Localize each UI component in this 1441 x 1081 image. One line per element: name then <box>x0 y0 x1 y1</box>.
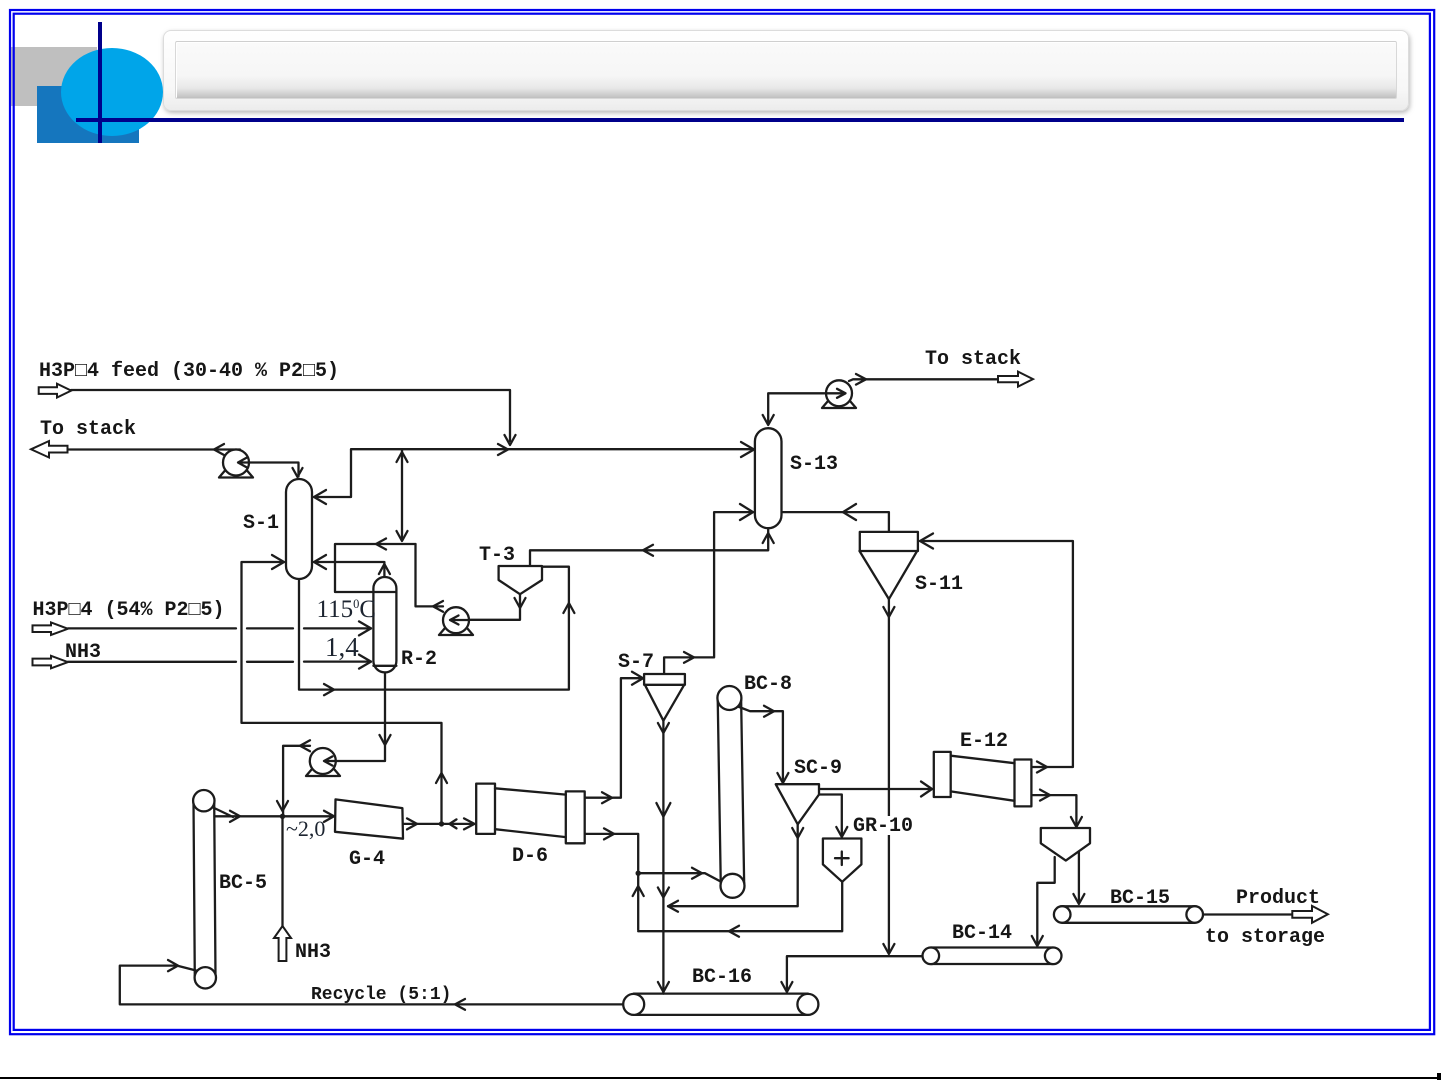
logo: medium blue square <box>37 86 139 143</box>
elevator BC-8 belt <box>718 698 745 886</box>
arrow down on riser x=402 <box>397 531 408 541</box>
arrow up toward T-3 on riser <box>563 603 574 613</box>
arrow right on D-6 gas outlet <box>602 792 612 803</box>
svg-text:BC-16: BC-16 <box>692 966 752 989</box>
pump P4 <box>826 380 852 406</box>
svg-text:H3P□4 (54% P2□5): H3P□4 (54% P2□5) <box>33 599 225 622</box>
svg-text:NH3: NH3 <box>295 941 331 964</box>
svg-text:BC-5: BC-5 <box>219 872 267 895</box>
wire BC-8 top discharge to SC-9 <box>738 707 783 783</box>
pump P2 internal arrow <box>450 616 470 625</box>
arrow left into S-1 upper right <box>314 490 326 504</box>
arrow right on header before feed drop <box>498 444 508 455</box>
svg-text:S-11: S-11 <box>915 573 963 596</box>
arrow up on R-2 vapor line <box>379 564 390 574</box>
separator S-11 cone <box>860 551 918 599</box>
wire S-7 gas riser to S-13 <box>664 512 753 674</box>
elevator BC-8 top pulley <box>717 686 741 710</box>
arrow left on to-stack header <box>214 444 224 455</box>
pump P1 <box>223 450 249 476</box>
junction dot NH3 tee <box>280 814 285 819</box>
pump P2 <box>443 607 469 633</box>
arrow right on E-12 gas outlet <box>1037 762 1047 773</box>
svg-text:T-3: T-3 <box>479 544 515 567</box>
arrow down from SC-9 cone <box>792 828 803 838</box>
wire loop corner to pump P2 <box>416 544 444 606</box>
wire G-4 outlet to D-6 <box>403 823 474 825</box>
wire BC-14 to BC-16 <box>787 956 923 989</box>
wire NH3 feed line <box>68 660 371 663</box>
wire R-2 bottoms to pump P3 <box>326 672 385 761</box>
wire BC-15 to product arrow <box>1203 913 1292 915</box>
dryer D-6 left end <box>476 784 495 834</box>
svg-text:R-2: R-2 <box>401 648 437 671</box>
wire S-13 bottoms to T-3 <box>530 528 768 566</box>
arrow left on SC-9 fines return <box>668 901 678 912</box>
arrow right into S-13 left inlet <box>740 504 753 520</box>
arrow up on riser to S-1 <box>436 773 447 783</box>
stream arrow to-stack right <box>998 372 1033 387</box>
bottom right tick <box>1437 1073 1441 1080</box>
arrow down into S-13 top <box>763 415 774 425</box>
reactor R-2 joint line <box>373 592 396 666</box>
wire S-1 bottoms to T-3 top right <box>299 567 569 690</box>
svg-text:1150C: 1150C <box>317 596 377 623</box>
svg-text:Product: Product <box>1236 887 1320 910</box>
arrow right into S-7 inlet <box>632 672 643 685</box>
arrow right into D-6 <box>450 818 475 829</box>
crusher GR-10 <box>823 839 862 882</box>
wire pump P1 outlet to S-1 top <box>239 463 299 477</box>
arrow down onto BC-14 <box>1032 936 1043 946</box>
title placeholder bar (3D bevel) <box>163 30 1409 111</box>
wire S-7 downcomer <box>662 721 664 994</box>
conveyor BC-14 left pulley <box>923 948 940 965</box>
arrow down below S-7 cone <box>658 723 669 733</box>
column S-1 <box>286 479 312 579</box>
stream arrow product <box>1292 906 1328 923</box>
conveyor BC-15 left pulley <box>1054 906 1071 923</box>
arrow right after G-4 <box>407 818 417 829</box>
wire SC-9 fines return <box>668 824 798 906</box>
svg-text:S-1: S-1 <box>243 512 279 535</box>
dryer D-6 shell <box>495 788 566 837</box>
svg-text:1,4: 1,4 <box>325 632 359 662</box>
wire vapor riser x=402 <box>401 450 403 541</box>
screen SC-9 <box>776 784 819 824</box>
cooler E-12 shell <box>951 756 1015 801</box>
stream arrow NH3 feed <box>33 656 68 669</box>
pump P4 base <box>822 401 856 408</box>
arrow up on riser x=402 <box>397 452 408 462</box>
wire S-13 gas to S-11 <box>782 512 889 532</box>
arrow down from S-11 downcomer <box>883 944 894 954</box>
svg-text:D-6: D-6 <box>512 845 548 868</box>
wire junction to BC-8 bottom <box>638 873 722 882</box>
svg-text:To stack: To stack <box>40 418 136 441</box>
arrow down on NH3 drop <box>277 801 288 811</box>
svg-text:To stack: To stack <box>925 348 1021 371</box>
wire G-4 junction riser to S-1 left inlet <box>242 562 442 824</box>
arrow down on R-2 bottoms <box>380 735 391 745</box>
conveyor BC-16 right pulley <box>797 994 818 1015</box>
wire H3PO4 54% feed line <box>68 627 371 629</box>
conveyor BC-5 bottom pulley <box>195 967 216 988</box>
wire SC-9 coarse to GR-10 <box>819 795 842 836</box>
arrow right into R-2 lower feed <box>359 655 371 669</box>
logo: gray square <box>11 47 97 106</box>
svg-text:E-12: E-12 <box>960 730 1008 753</box>
conveyor BC-5 top pulley <box>193 790 214 811</box>
arrow down onto BC-16 right <box>781 982 792 992</box>
arrow up on GR-10 return riser <box>633 886 644 896</box>
svg-text:BC-15: BC-15 <box>1110 887 1170 910</box>
conveyor BC-5 belt <box>194 801 216 978</box>
junction dot G-4 outlet tee <box>439 821 444 826</box>
arrow left pump P2 outlet <box>433 601 443 612</box>
arrow up into S-13 bottom <box>763 533 774 543</box>
crusher GR-10 plus symbol <box>835 852 849 866</box>
pump P3 <box>310 748 336 774</box>
bottom black rule <box>0 1077 1441 1080</box>
label mask for GR-10 <box>851 816 915 835</box>
arrow down onto BC-16 <box>658 982 669 992</box>
logo: navy vertical crosshair line <box>98 22 102 143</box>
wire S-11 downcomer <box>888 599 890 951</box>
svg-text:H3P□4 feed (30-40 % P2□5): H3P□4 feed (30-40 % P2□5) <box>39 360 339 383</box>
arrow down big on S-7 downcomer <box>656 803 670 817</box>
stream arrow NH3 up <box>274 926 291 961</box>
wire BC-5 discharge into G-4 <box>210 806 334 817</box>
column S-13 <box>755 428 782 528</box>
svg-text:Recycle (5:1): Recycle (5:1) <box>311 985 451 1005</box>
arrow left into S-1 right <box>314 555 326 569</box>
wire H3PO4 feed top line <box>71 390 510 441</box>
pump P3 base <box>306 769 340 776</box>
svg-text:SC-9: SC-9 <box>794 757 842 780</box>
arrow down into hopper <box>1071 817 1082 827</box>
arrow left on recycle line <box>455 999 465 1010</box>
conveyor BC-15 shell <box>1062 906 1195 923</box>
wire GR-10 discharge return <box>638 882 842 931</box>
arrow right into R-2 upper feed <box>359 621 371 635</box>
pump P4 internal arrow <box>826 389 846 398</box>
arrow right into S-13 upper inlet <box>741 442 754 457</box>
navy horizontal rule under title <box>76 118 1404 122</box>
wire pump P4 suction from S-13 top <box>768 393 843 423</box>
logo: azure ellipse <box>61 48 163 136</box>
granulator G-4 <box>335 799 403 838</box>
wire E-12 product to hopper <box>1031 795 1076 825</box>
arrow left pump P3 outlet <box>300 740 310 751</box>
arrow down mid S-7 downcomer <box>658 888 669 898</box>
stream arrow H3PO4 54% <box>33 623 68 636</box>
arrow right into G-4 <box>324 811 334 822</box>
arrow down feed drop <box>505 435 516 445</box>
svg-text:BC-14: BC-14 <box>952 922 1012 945</box>
cooler E-12 left end <box>934 752 951 797</box>
arrow right on D-6 solids outlet <box>604 828 614 839</box>
arrow right after BC-5 top <box>230 811 240 822</box>
pump P1 internal arrow <box>238 458 250 467</box>
arrow left on S-13 bottoms line <box>643 545 653 556</box>
separator S-11 lid <box>860 532 918 551</box>
arrow right into S-1 left <box>272 555 284 569</box>
conveyor BC-16 left pulley <box>623 994 644 1015</box>
wire S-1 upper right inlet branch <box>314 450 351 498</box>
arrow down into S-1 top <box>293 468 303 477</box>
conveyor BC-15 right pulley <box>1186 906 1203 923</box>
pump P2 base <box>439 628 473 635</box>
stream arrow H3PO4 feed <box>39 384 71 398</box>
wire hopper to BC-14 <box>1037 857 1054 945</box>
pump P3 internal arrow <box>324 756 337 765</box>
conveyor BC-14 right pulley <box>1045 948 1062 965</box>
svg-text:~2,0: ~2,0 <box>286 816 325 841</box>
arrow right toward BC-8 bottom <box>692 868 702 879</box>
conveyor BC-14 shell <box>931 948 1053 965</box>
arrow down into SC-9 top <box>777 773 788 783</box>
arrow right on E-12 product outlet <box>1040 790 1050 801</box>
svg-text:G-4: G-4 <box>349 848 385 871</box>
elevator BC-8 bottom pulley <box>721 874 745 898</box>
arrow right on S-7 gas line <box>684 652 694 663</box>
arrow down into GR-10 top <box>836 827 847 837</box>
wire D-6 gas outlet to S-7 <box>585 678 642 798</box>
product hopper <box>1041 828 1090 861</box>
svg-text:GR-10: GR-10 <box>853 815 913 838</box>
wire E-12 gas outlet to S-11 <box>920 541 1073 767</box>
wire NH3 riser <box>281 816 283 926</box>
wire D-6 solids outlet down <box>585 834 639 930</box>
separator S-7 lid <box>644 674 685 685</box>
tank T-3 funnel <box>499 566 542 594</box>
pump P1 base <box>219 471 253 478</box>
wire recycle loop into R-2 top left <box>335 544 416 592</box>
wire T-3 bottom to pump P2 <box>452 594 520 620</box>
junction dot BC-8 feed tee <box>636 871 641 876</box>
separator S-7 cone <box>645 685 684 721</box>
wire hopper to BC-15 <box>1078 851 1080 903</box>
arrow left on recycle loop <box>376 539 386 550</box>
wire recycle line to BC-5 <box>120 966 623 1005</box>
arrow down onto BC-15 <box>1073 894 1084 904</box>
wire R-2 vapor to S-1 right inlet <box>314 562 384 577</box>
wire to-stack main header line <box>67 448 755 451</box>
arrow right on BC-8 discharge <box>764 706 774 717</box>
svg-text:NH3: NH3 <box>65 641 101 664</box>
wire pump P4 outlet to stack <box>849 379 998 381</box>
arrow right into BC-5 bottom <box>168 960 178 971</box>
svg-text:S-7: S-7 <box>618 651 654 674</box>
arrow left on GR-10 return line <box>729 926 739 937</box>
arrow down from S-11 cone <box>883 607 894 617</box>
arrow right into E-12 inlet <box>921 782 932 797</box>
arrow right on S-1 bottoms line <box>324 684 334 695</box>
reactor R-2 <box>373 577 396 672</box>
svg-text:BC-8: BC-8 <box>744 673 792 696</box>
svg-text:S-13: S-13 <box>790 453 838 476</box>
arrow left into S-11 right inlet <box>920 534 933 549</box>
wire pump P3 outlet down to junction <box>283 746 310 817</box>
dryer D-6 right end <box>566 791 585 843</box>
svg-text:to storage: to storage <box>1205 926 1325 949</box>
arrow left on S-11 gas line <box>843 504 856 520</box>
cooler E-12 right end <box>1015 760 1032 807</box>
wire SC-9 overflow to E-12 <box>819 788 932 790</box>
stream arrow to-stack left <box>31 441 68 458</box>
arrow right pump P4 outlet <box>856 374 866 385</box>
conveyor BC-16 shell <box>634 994 808 1015</box>
arrow down from T-3 cone <box>515 598 526 608</box>
